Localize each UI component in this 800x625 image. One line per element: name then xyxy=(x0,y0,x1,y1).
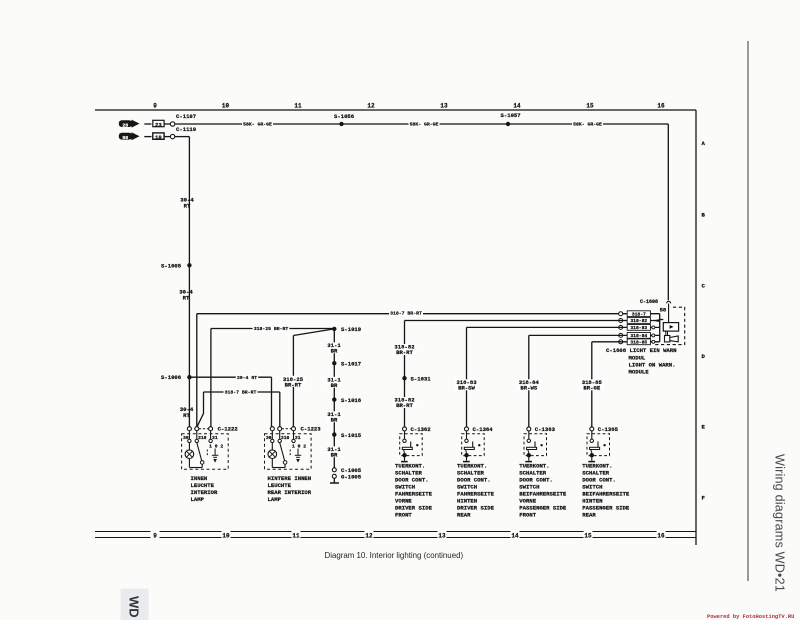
svg-text:30: 30 xyxy=(266,435,272,441)
svg-text:C-1223: C-1223 xyxy=(301,425,322,432)
svg-text:DRIVER SIDE: DRIVER SIDE xyxy=(457,505,495,512)
svg-text:S-1016: S-1016 xyxy=(341,397,362,404)
svg-text:VORNE: VORNE xyxy=(395,498,412,505)
svg-text:SWITCH: SWITCH xyxy=(582,484,602,491)
svg-text:HINTEN: HINTEN xyxy=(582,498,602,505)
svg-text:BR-SW: BR-SW xyxy=(458,385,475,392)
svg-text:BEIFAHRERSEITE: BEIFAHRERSEITE xyxy=(582,491,630,498)
svg-text:SWITCH: SWITCH xyxy=(519,484,539,491)
svg-text:318-85: 318-85 xyxy=(630,340,647,346)
svg-text:318-7: 318-7 xyxy=(632,311,646,317)
svg-text:FAHRERSEITE: FAHRERSEITE xyxy=(457,491,495,498)
svg-text:S-1006: S-1006 xyxy=(161,374,182,381)
svg-text:318: 318 xyxy=(281,435,290,441)
svg-text:TUERKONT.: TUERKONT. xyxy=(395,463,425,470)
svg-text:SCHALTER: SCHALTER xyxy=(457,470,484,477)
svg-text:RT: RT xyxy=(184,203,191,210)
svg-text:BR: BR xyxy=(331,451,338,458)
svg-text:9: 9 xyxy=(153,103,157,110)
svg-text:S-1056: S-1056 xyxy=(334,113,355,120)
svg-text:SWITCH: SWITCH xyxy=(395,484,415,491)
svg-text:INTERIOR: INTERIOR xyxy=(191,489,218,496)
svg-text:S-1017: S-1017 xyxy=(341,361,361,368)
svg-text:REAR: REAR xyxy=(457,512,471,519)
svg-text:318-84: 318-84 xyxy=(630,333,647,339)
svg-text:REAR INTERIOR: REAR INTERIOR xyxy=(268,489,312,496)
svg-text:12: 12 xyxy=(367,103,375,110)
svg-text:13: 13 xyxy=(440,103,448,110)
svg-text:SCHALTER: SCHALTER xyxy=(582,470,609,477)
svg-text:TUERKONT.: TUERKONT. xyxy=(519,463,549,470)
svg-text:S-1031: S-1031 xyxy=(411,376,432,383)
svg-text:S-1015: S-1015 xyxy=(341,432,362,439)
svg-text:FAHRERSEITE: FAHRERSEITE xyxy=(395,491,433,498)
svg-text:DRIVER SIDE: DRIVER SIDE xyxy=(395,505,433,512)
svg-text:DOOR CONT.: DOOR CONT. xyxy=(395,477,429,484)
svg-text:TUERKONT.: TUERKONT. xyxy=(457,463,487,470)
svg-text:DOOR CONT.: DOOR CONT. xyxy=(519,477,553,484)
svg-text:15: 15 xyxy=(584,533,592,540)
svg-text:BR-RT: BR-RT xyxy=(396,402,413,409)
svg-text:31: 31 xyxy=(212,435,218,441)
svg-text:G-1005: G-1005 xyxy=(341,474,362,481)
svg-text:28: 28 xyxy=(122,122,128,128)
svg-text:BR-RT: BR-RT xyxy=(285,381,302,388)
svg-text:REAR: REAR xyxy=(582,512,596,519)
svg-text:BR: BR xyxy=(331,347,338,354)
svg-text:BR: BR xyxy=(331,416,338,423)
svg-text:1 0 2: 1 0 2 xyxy=(292,443,306,449)
svg-text:23: 23 xyxy=(155,121,162,128)
svg-text:SCHALTER: SCHALTER xyxy=(395,470,422,477)
svg-text:VORNE: VORNE xyxy=(519,498,536,505)
svg-text:RT: RT xyxy=(183,294,190,301)
svg-text:15: 15 xyxy=(586,103,594,110)
svg-text:FRONT: FRONT xyxy=(519,512,536,519)
svg-text:13: 13 xyxy=(438,533,446,540)
svg-text:SWITCH: SWITCH xyxy=(457,484,477,491)
svg-text:BR-RT: BR-RT xyxy=(396,349,413,356)
svg-text:58K- GR-GE: 58K- GR-GE xyxy=(573,122,602,128)
svg-text:LEUCHTE: LEUCHTE xyxy=(191,482,215,489)
svg-text:C-1608: C-1608 xyxy=(640,299,658,305)
svg-text:30: 30 xyxy=(183,435,189,441)
svg-text:58: 58 xyxy=(660,307,667,314)
svg-text:C-1365: C-1365 xyxy=(598,426,619,433)
svg-text:HINTEN: HINTEN xyxy=(457,498,477,505)
svg-text:11: 11 xyxy=(294,103,302,110)
svg-text:C-1107: C-1107 xyxy=(176,113,196,120)
svg-text:S-1005: S-1005 xyxy=(161,262,182,269)
svg-text:318-82: 318-82 xyxy=(630,318,647,324)
svg-text:BR: BR xyxy=(331,382,338,389)
svg-text:C-1608 LICHT EIN WARN: C-1608 LICHT EIN WARN xyxy=(606,347,677,354)
svg-text:INNEN: INNEN xyxy=(191,475,208,482)
svg-text:58K- GR-GE: 58K- GR-GE xyxy=(410,122,439,128)
svg-text:Powered by FotoHostingTV.RU: Powered by FotoHostingTV.RU xyxy=(707,614,794,620)
svg-text:10: 10 xyxy=(222,103,230,110)
svg-text:LEUCHTE: LEUCHTE xyxy=(268,482,292,489)
svg-text:SCHALTER: SCHALTER xyxy=(519,470,546,477)
svg-text:LIGHT ON WARN.: LIGHT ON WARN. xyxy=(629,361,676,368)
svg-text:BR-WS: BR-WS xyxy=(520,385,537,392)
svg-text:31: 31 xyxy=(295,435,301,441)
svg-text:C-1364: C-1364 xyxy=(473,426,494,433)
svg-text:BEIFAHRERSEITE: BEIFAHRERSEITE xyxy=(519,491,567,498)
svg-text:10: 10 xyxy=(155,134,162,141)
svg-text:BR-GE: BR-GE xyxy=(583,385,600,392)
svg-text:LAMP: LAMP xyxy=(268,496,282,503)
svg-text:DOOR CONT.: DOOR CONT. xyxy=(457,477,491,484)
svg-text:C-1363: C-1363 xyxy=(535,426,556,433)
svg-text:14: 14 xyxy=(513,103,521,110)
svg-text:9: 9 xyxy=(153,533,157,540)
svg-text:318-7 BR-RT: 318-7 BR-RT xyxy=(225,390,257,396)
svg-text:14: 14 xyxy=(511,533,519,540)
svg-text:S-1019: S-1019 xyxy=(341,326,362,333)
svg-text:C-1362: C-1362 xyxy=(411,426,432,433)
svg-text:TUERKONT.: TUERKONT. xyxy=(582,463,612,470)
svg-text:30-4 RT: 30-4 RT xyxy=(237,375,257,381)
svg-text:318-7 BR-RT: 318-7 BR-RT xyxy=(390,311,422,317)
svg-text:58K- GR-GE: 58K- GR-GE xyxy=(243,122,272,128)
svg-text:RT: RT xyxy=(183,412,190,419)
svg-text:MODULE: MODULE xyxy=(629,368,650,375)
svg-text:S-1057: S-1057 xyxy=(501,112,521,119)
svg-text:C-1222: C-1222 xyxy=(218,425,239,432)
svg-text:LAMP: LAMP xyxy=(191,496,205,503)
svg-text:FRONT: FRONT xyxy=(395,512,412,519)
svg-text:HINTERE INNEN: HINTERE INNEN xyxy=(268,475,312,482)
svg-text:318-83: 318-83 xyxy=(630,325,647,331)
svg-text:318: 318 xyxy=(198,435,207,441)
svg-text:PASSENGER SIDE: PASSENGER SIDE xyxy=(582,505,630,512)
svg-text:1 0 2: 1 0 2 xyxy=(209,443,223,449)
svg-text:C-1110: C-1110 xyxy=(176,126,197,133)
svg-text:12: 12 xyxy=(365,533,373,540)
svg-text:WD: WD xyxy=(127,596,142,618)
svg-text:MODUL: MODUL xyxy=(629,354,646,361)
svg-text:16: 16 xyxy=(657,103,665,110)
svg-text:Diagram 10. Interior lighting: Diagram 10. Interior lighting (continued… xyxy=(325,551,464,560)
svg-text:11: 11 xyxy=(292,533,300,540)
svg-text:318-25 BR-RT: 318-25 BR-RT xyxy=(254,326,289,332)
svg-text:98: 98 xyxy=(122,135,128,141)
svg-text:PASSENGER SIDE: PASSENGER SIDE xyxy=(519,505,567,512)
svg-text:Wiring diagrams WD•21: Wiring diagrams WD•21 xyxy=(773,454,787,592)
svg-text:16: 16 xyxy=(657,533,665,540)
svg-text:10: 10 xyxy=(222,533,230,540)
svg-text:DOOR CONT.: DOOR CONT. xyxy=(582,477,616,484)
